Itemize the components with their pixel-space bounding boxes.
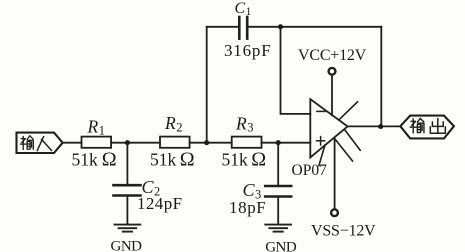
resistor R1	[82, 137, 112, 148]
input tag 输入	[17, 133, 63, 153]
op-amp minus sign (inverting input)	[317, 110, 325, 112]
svg-text:51kΩ: 51kΩ	[72, 149, 117, 171]
wire top feedback line right	[247, 26, 381, 28]
node A (R2-R3 junction dot)	[204, 140, 209, 145]
glyph 输 (input)	[21, 136, 34, 149]
resistor R2	[160, 137, 190, 148]
wire from feedback node down to inverting input	[281, 27, 311, 114]
svg-text:51kΩ: 51kΩ	[222, 149, 267, 171]
wire riser node after R1 down to C2	[126, 143, 128, 186]
wire op-amp to VSS supply	[334, 139, 336, 210]
capacitor C2	[114, 185, 141, 195]
glyph 入 (input)	[37, 137, 51, 151]
svg-text:GND: GND	[111, 239, 143, 252]
svg-text:GND: GND	[265, 240, 297, 252]
wire input to R1	[63, 142, 82, 144]
VSS terminal circle	[331, 209, 338, 216]
wire R3 to op-amp non-inverting input	[262, 142, 311, 144]
wire R1 to R2	[111, 142, 160, 144]
node after R1 (junction dot)	[125, 140, 130, 145]
svg-text:124pF: 124pF	[137, 194, 182, 213]
glyph 输 (output)	[410, 118, 424, 132]
capacitor C1	[239, 17, 247, 39]
wire riser node A up to feedback line	[206, 27, 208, 143]
wire riser node B down to C3	[277, 143, 279, 186]
wire op-amp output to tag	[348, 125, 401, 127]
svg-text:316pF: 316pF	[224, 41, 271, 60]
wire VCC supply to op-amp	[331, 75, 333, 115]
op-amp unused pin stroke lower left	[319, 145, 325, 166]
wire C2 to ground	[126, 196, 128, 225]
output tag 输出	[400, 116, 454, 139]
ground (below C2)	[115, 225, 141, 232]
ground (below C3)	[265, 225, 291, 232]
resistor R3	[232, 137, 262, 148]
wire R2 to R3	[190, 142, 232, 144]
svg-text:51kΩ: 51kΩ	[150, 149, 195, 171]
svg-text:VCC+12V: VCC+12V	[298, 47, 367, 64]
wire top feedback line left	[207, 26, 240, 28]
output node (junction dot)	[378, 124, 383, 129]
op-amp U1 OP07 triangle	[310, 99, 347, 157]
op-amp unused pin stroke lower right	[335, 139, 353, 161]
svg-text:C1: C1	[235, 0, 252, 18]
capacitor C3	[265, 186, 291, 197]
wire feedback drop to output node	[380, 27, 382, 127]
svg-text:18pF: 18pF	[229, 198, 266, 217]
node on feedback line (junction dot)	[278, 24, 283, 29]
svg-text:OP07: OP07	[292, 162, 328, 179]
svg-text:R3: R3	[235, 113, 253, 134]
svg-text:R2: R2	[164, 113, 182, 134]
op-amp plus sign (non-inverting input)	[317, 137, 325, 145]
glyph 出 (output)	[430, 119, 445, 134]
wire C3 to ground	[277, 197, 279, 225]
op-amp unused pin stroke right below output	[345, 130, 361, 151]
svg-text:VSS−12V: VSS−12V	[311, 223, 376, 240]
op-amp unused pin stroke upper right	[340, 102, 358, 120]
VCC terminal circle	[329, 68, 336, 75]
svg-text:R1: R1	[87, 116, 105, 137]
node B (R3-C3 junction dot)	[276, 140, 281, 145]
